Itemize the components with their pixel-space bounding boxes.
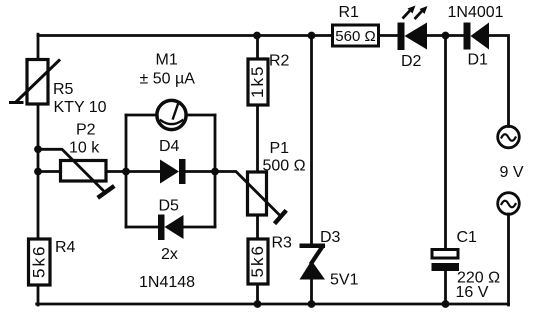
svg-text:P1: P1 bbox=[270, 140, 290, 157]
svg-text:± 50 µA: ± 50 µA bbox=[140, 71, 196, 88]
svg-text:560 Ω: 560 Ω bbox=[335, 28, 375, 45]
svg-text:P2: P2 bbox=[76, 122, 96, 139]
svg-text:5k6: 5k6 bbox=[30, 245, 49, 278]
svg-text:9 V: 9 V bbox=[500, 164, 524, 181]
svg-text:5k6: 5k6 bbox=[248, 244, 267, 277]
svg-text:2x: 2x bbox=[161, 246, 178, 263]
svg-text:D4: D4 bbox=[159, 138, 180, 155]
svg-text:C1: C1 bbox=[457, 229, 478, 246]
svg-text:KTY 10: KTY 10 bbox=[54, 99, 107, 116]
svg-text:R5: R5 bbox=[53, 81, 74, 98]
svg-text:R4: R4 bbox=[55, 239, 76, 256]
svg-text:M1: M1 bbox=[156, 52, 178, 69]
svg-text:D1: D1 bbox=[468, 52, 489, 69]
svg-text:R3: R3 bbox=[272, 235, 293, 252]
svg-text:1N4001: 1N4001 bbox=[448, 4, 504, 21]
svg-text:D2: D2 bbox=[401, 53, 422, 70]
svg-text:10 k: 10 k bbox=[69, 140, 100, 157]
svg-text:D3: D3 bbox=[320, 229, 341, 246]
svg-text:D5: D5 bbox=[159, 198, 180, 215]
svg-text:1N4148: 1N4148 bbox=[139, 274, 195, 291]
svg-text:1k5: 1k5 bbox=[248, 65, 267, 98]
svg-text:500 Ω: 500 Ω bbox=[263, 158, 306, 175]
svg-text:5V1: 5V1 bbox=[330, 272, 359, 289]
svg-text:16 V: 16 V bbox=[456, 284, 489, 301]
svg-text:R1: R1 bbox=[339, 4, 360, 21]
svg-text:R2: R2 bbox=[269, 53, 290, 70]
